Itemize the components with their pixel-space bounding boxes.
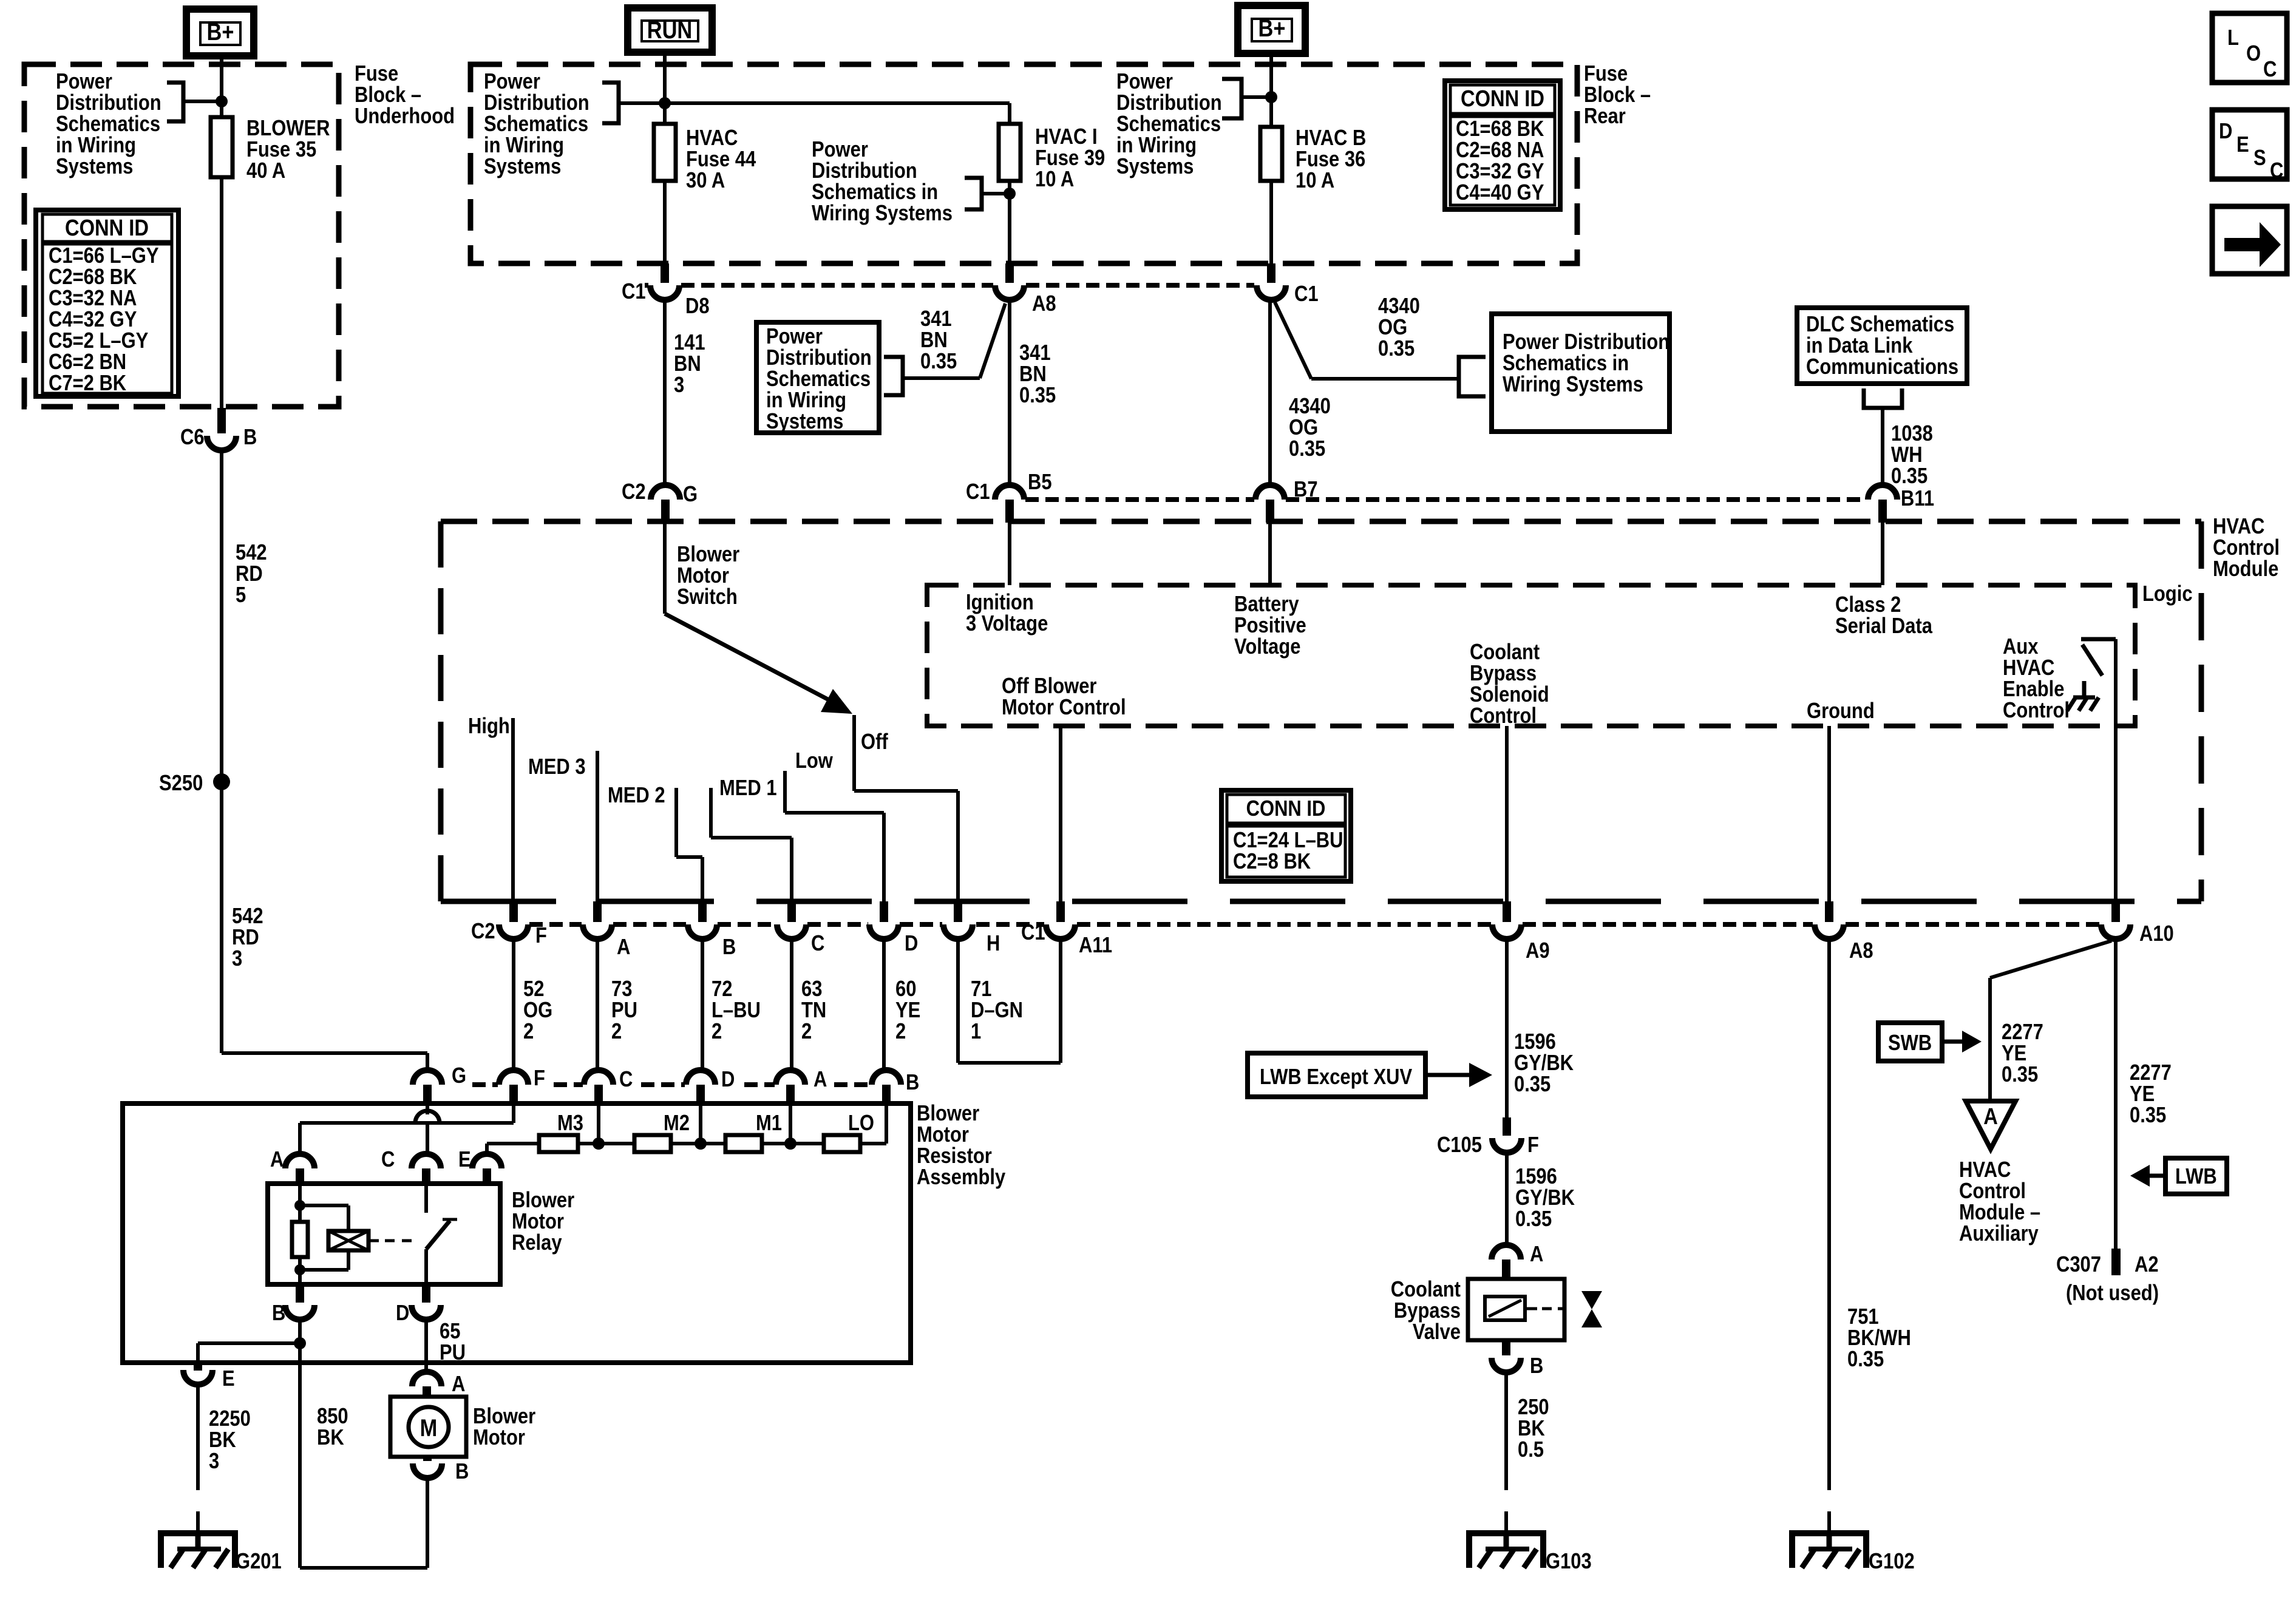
connector pin A8 (module bottom) xyxy=(1825,901,1833,922)
svg-text:C: C xyxy=(2270,159,2283,183)
svg-text:HVAC: HVAC xyxy=(2003,656,2054,680)
svg-text:Switch: Switch xyxy=(677,585,738,609)
ground G102 xyxy=(1792,1533,1866,1568)
box note Power Distribution Schematics in Wiring Systems (4340 OG) xyxy=(1492,314,1669,432)
connector pin B (module bottom) xyxy=(698,901,707,922)
connector C1 pin D8 xyxy=(661,263,669,283)
svg-text:10 A: 10 A xyxy=(1296,169,1334,193)
wire 2250 BK to G201 xyxy=(196,1385,200,1490)
svg-text:C5=2 L–GY: C5=2 L–GY xyxy=(49,329,148,353)
wire M3 to C node xyxy=(578,1142,634,1145)
node junction C / resistor network xyxy=(593,1137,605,1150)
svg-text:in Wiring: in Wiring xyxy=(484,134,564,158)
svg-text:Coolant: Coolant xyxy=(1391,1278,1461,1302)
svg-text:G103: G103 xyxy=(1546,1550,1592,1574)
svg-text:Positive: Positive xyxy=(1234,614,1306,638)
inline connector line (resistor assembly, dotted) xyxy=(472,1082,498,1087)
svg-text:Systems: Systems xyxy=(1116,155,1194,179)
wire bracket link to Power Distribution note (left) xyxy=(183,100,222,103)
svg-text:2277: 2277 xyxy=(2002,1020,2043,1045)
label Power Distribution Schematics in Wiring Systems (run feed) xyxy=(484,70,589,179)
connector pin A9 (module bottom) xyxy=(1503,901,1511,922)
svg-text:Coolant: Coolant xyxy=(1470,640,1540,665)
svg-text:63: 63 xyxy=(801,977,822,1002)
svg-text:YE: YE xyxy=(2130,1082,2155,1107)
node relay coil top xyxy=(294,1200,305,1211)
svg-text:C1=68 BK: C1=68 BK xyxy=(1456,117,1544,141)
wire fuse 44 to connector C1/D8 xyxy=(663,181,667,272)
svg-text:in Wiring: in Wiring xyxy=(56,134,136,158)
svg-text:HVAC: HVAC xyxy=(2213,515,2264,539)
svg-text:C1: C1 xyxy=(1294,282,1319,307)
relay switch blade xyxy=(426,1221,450,1249)
svg-text:542: 542 xyxy=(236,541,267,565)
symbol LOC box xyxy=(2212,13,2287,83)
svg-text:0.35: 0.35 xyxy=(1515,1207,1552,1232)
svg-text:C1: C1 xyxy=(966,480,990,504)
wire 141 BN 3 (D8 to G) xyxy=(663,300,667,486)
svg-text:0.35: 0.35 xyxy=(1378,337,1415,361)
label 60 YE 2 xyxy=(895,977,920,1044)
svg-text:0.35: 0.35 xyxy=(1891,464,1927,489)
bracket for Power Distribution note (fuse39) xyxy=(965,178,982,209)
relay coil symbol xyxy=(328,1231,369,1250)
label 751 BK/WH 0.35 xyxy=(1847,1305,1911,1372)
svg-text:S250: S250 xyxy=(159,771,203,796)
resistor M3 xyxy=(539,1135,578,1152)
svg-text:52: 52 xyxy=(523,977,544,1002)
label 4340 OG 0.35 (lower) xyxy=(1289,395,1331,461)
relay pin D (blower motor relay) xyxy=(422,1284,430,1303)
svg-text:C2=8 BK: C2=8 BK xyxy=(1233,850,1311,874)
svg-text:B: B xyxy=(455,1460,469,1484)
svg-text:GY/BK: GY/BK xyxy=(1515,1186,1575,1210)
connector C2 pin G (module) xyxy=(651,485,680,500)
svg-text:A: A xyxy=(617,935,630,960)
svg-text:B: B xyxy=(243,425,257,450)
wire B11 into module xyxy=(1881,523,1884,585)
connector C6 pin B xyxy=(217,408,226,433)
svg-text:B5: B5 xyxy=(1028,470,1052,495)
svg-text:Resistor: Resistor xyxy=(917,1144,992,1168)
svg-text:Motor: Motor xyxy=(917,1123,969,1147)
svg-text:40 A: 40 A xyxy=(246,159,285,183)
svg-text:Schematics: Schematics xyxy=(1116,112,1221,137)
wire A10 diagonal to SWB branch xyxy=(1990,941,2111,978)
wire 4340 OG 0.35 (C1 to B7) xyxy=(1268,300,1272,486)
svg-text:H: H xyxy=(987,932,1000,956)
wire 542 RD 5 (C6 to S250) xyxy=(220,450,223,782)
svg-text:2: 2 xyxy=(523,1020,534,1044)
svg-text:BK: BK xyxy=(209,1428,236,1453)
svg-text:Solenoid: Solenoid xyxy=(1470,683,1549,707)
box LWB Except XUV xyxy=(1248,1053,1425,1097)
wire B7 into module xyxy=(1268,523,1272,585)
wire to connector E xyxy=(198,1341,300,1345)
svg-text:Fuse 39: Fuse 39 xyxy=(1035,146,1105,171)
svg-text:Power: Power xyxy=(484,70,540,94)
wire 72 L-BU 2 xyxy=(701,939,704,1070)
svg-text:A8: A8 xyxy=(1849,939,1873,963)
svg-text:High: High xyxy=(468,714,510,739)
power symbol RUN (ignition) xyxy=(628,8,712,52)
svg-text:C3=32 GY: C3=32 GY xyxy=(1456,160,1544,184)
node junction 850BK/ground xyxy=(294,1337,306,1349)
svg-text:Wiring Systems: Wiring Systems xyxy=(1503,373,1643,397)
svg-text:Ground: Ground xyxy=(1807,699,1875,724)
svg-text:Schematics in: Schematics in xyxy=(812,180,938,205)
svg-text:B: B xyxy=(906,1071,919,1095)
svg-text:Blower: Blower xyxy=(677,543,739,567)
svg-text:HVAC: HVAC xyxy=(686,126,738,151)
node junction on B+ wire xyxy=(216,95,228,107)
connector pin G (resistor assembly) xyxy=(413,1070,442,1085)
label 63 TN 2 xyxy=(801,977,826,1044)
label Low xyxy=(795,749,834,773)
svg-text:SWB: SWB xyxy=(1888,1031,1932,1056)
svg-text:M2: M2 xyxy=(664,1111,690,1136)
svg-text:73: 73 xyxy=(611,977,632,1002)
wire resistor chain from relay pin E xyxy=(487,1142,539,1145)
label 341 BN 0.35 (right) xyxy=(1019,341,1056,408)
svg-text:4340: 4340 xyxy=(1378,294,1420,319)
svg-text:PU: PU xyxy=(611,998,637,1023)
svg-text:Fuse 35: Fuse 35 xyxy=(246,138,316,162)
connector pin B7 (module) xyxy=(1255,485,1285,500)
connector pin E (resistor assembly out) xyxy=(194,1360,202,1371)
wire aux enable to A10 xyxy=(2114,639,2118,901)
solenoid Coolant Bypass Valve xyxy=(1468,1279,1564,1340)
svg-text:C2: C2 xyxy=(471,920,495,944)
svg-text:A: A xyxy=(1530,1242,1543,1267)
wire A10 to C307 xyxy=(2114,939,2118,1249)
motor M1 blower motor xyxy=(390,1397,466,1457)
box SWB xyxy=(1878,1023,1942,1061)
svg-text:OG: OG xyxy=(1289,416,1318,440)
wire 850 BK (relay B to blower motor B) xyxy=(298,1343,302,1568)
connector pin A10 (module bottom) xyxy=(2111,901,2120,922)
resistor relay coil shunt xyxy=(292,1222,308,1257)
svg-text:BK/WH: BK/WH xyxy=(1847,1326,1911,1351)
connector pin B (resistor assembly) xyxy=(872,1070,901,1085)
svg-text:Motor: Motor xyxy=(512,1210,564,1234)
connector pin B (coolant bypass valve) xyxy=(1502,1340,1510,1355)
svg-text:S: S xyxy=(2254,146,2266,171)
table CONN ID (rear fuse block) xyxy=(1445,81,1560,209)
label 2277 YE 0.35 (LWB side) xyxy=(2130,1061,2172,1128)
svg-text:D: D xyxy=(905,932,918,956)
svg-text:B11: B11 xyxy=(1901,487,1934,511)
svg-text:341: 341 xyxy=(920,307,952,331)
label 250 BK 0.5 xyxy=(1518,1395,1549,1462)
svg-text:A: A xyxy=(270,1148,284,1172)
wire F to relay pin A xyxy=(512,1103,515,1123)
resistor M1 xyxy=(725,1135,762,1152)
svg-text:Valve: Valve xyxy=(1413,1320,1461,1344)
svg-text:Aux: Aux xyxy=(2003,635,2039,659)
wire A into resistor network xyxy=(789,1103,792,1144)
svg-text:D: D xyxy=(2219,120,2232,144)
svg-text:F: F xyxy=(1527,1133,1539,1158)
wire RUN to fuse 44 xyxy=(663,52,667,124)
svg-text:OG: OG xyxy=(1378,316,1407,340)
node relay coil bottom xyxy=(294,1264,305,1275)
svg-text:0.35: 0.35 xyxy=(920,350,957,374)
relay pin A (blower motor relay) xyxy=(285,1154,314,1168)
connector pin D (module bottom) xyxy=(880,901,888,922)
svg-text:Control: Control xyxy=(2213,536,2280,560)
svg-text:C2=68 BK: C2=68 BK xyxy=(49,265,137,290)
svg-text:Systems: Systems xyxy=(766,410,843,434)
svg-text:WH: WH xyxy=(1891,443,1923,467)
bracket for Power Distribution note (b+ right) xyxy=(1222,79,1241,118)
svg-text:C1: C1 xyxy=(622,280,646,304)
label Blower Motor Resistor Assembly xyxy=(917,1102,1006,1190)
svg-text:D: D xyxy=(396,1301,409,1326)
svg-text:Voltage: Voltage xyxy=(1234,635,1300,659)
arrow SWB xyxy=(1942,1040,1962,1044)
connector pin A (module bottom) xyxy=(593,901,602,922)
svg-text:MED 2: MED 2 xyxy=(608,784,665,808)
label 2250 BK 3 xyxy=(209,1407,251,1474)
label BLOWER Fuse 35 40 A xyxy=(246,117,330,183)
svg-text:Power Distribution: Power Distribution xyxy=(1503,330,1669,354)
svg-text:A8: A8 xyxy=(1032,292,1056,316)
svg-text:C2=68 NA: C2=68 NA xyxy=(1456,138,1544,163)
power symbol B+ (left, hot at all times) xyxy=(186,9,254,56)
svg-text:65: 65 xyxy=(440,1320,460,1344)
symbol next-page arrow box xyxy=(2212,206,2287,274)
svg-text:C4=40 GY: C4=40 GY xyxy=(1456,181,1544,205)
svg-text:0.35: 0.35 xyxy=(1514,1073,1550,1097)
wire 65 PU relay D to blower motor A xyxy=(424,1320,428,1372)
svg-text:Power: Power xyxy=(766,325,823,349)
relay actuator dashed link xyxy=(369,1239,379,1242)
svg-text:0.35: 0.35 xyxy=(1847,1347,1884,1372)
svg-text:C: C xyxy=(811,932,824,956)
svg-text:Schematics: Schematics xyxy=(56,112,160,137)
wire C105 to valve A xyxy=(1505,1153,1509,1245)
svg-text:in Wiring: in Wiring xyxy=(1116,134,1197,158)
svg-text:LWB Except XUV: LWB Except XUV xyxy=(1260,1065,1413,1090)
svg-text:BN: BN xyxy=(920,328,948,353)
svg-text:G201: G201 xyxy=(236,1550,282,1574)
connector C2 pin F (module bottom) xyxy=(509,901,518,922)
label Blower Motor xyxy=(473,1405,535,1450)
connector C1 pin A11 (module bottom) xyxy=(1056,901,1065,922)
fuse HVAC B Fuse 36 10A xyxy=(1260,127,1282,181)
svg-text:C6=2 BN: C6=2 BN xyxy=(49,350,126,375)
svg-text:Systems: Systems xyxy=(484,155,561,179)
svg-text:Relay: Relay xyxy=(512,1231,562,1255)
svg-text:Blower: Blower xyxy=(917,1102,979,1126)
svg-text:Enable: Enable xyxy=(2003,677,2064,702)
wire 751 BK/WH 0.35 xyxy=(1827,939,1831,1490)
svg-text:60: 60 xyxy=(895,977,916,1002)
bracket for Power Distribution note (run) xyxy=(602,83,619,123)
svg-text:2: 2 xyxy=(801,1020,812,1044)
label 542 RD 5 xyxy=(236,541,267,608)
svg-text:Power: Power xyxy=(1116,70,1173,94)
box Blower Motor Resistor Assembly xyxy=(123,1103,911,1363)
wire B5 into module xyxy=(1008,523,1011,585)
svg-text:Fuse: Fuse xyxy=(1584,62,1628,86)
svg-text:MED 3: MED 3 xyxy=(528,755,586,779)
node junction D / resistor network xyxy=(695,1137,707,1150)
svg-text:M: M xyxy=(420,1414,438,1442)
svg-text:L: L xyxy=(2227,26,2239,50)
label 542 RD 3 xyxy=(232,904,263,971)
box Fuse Block - Rear (dashed) xyxy=(470,64,1577,263)
wire bracket link to Power Distribution note (fuse39) xyxy=(982,192,1010,195)
label 71 D-GN 1 xyxy=(971,977,1023,1044)
inline connector line row B (dotted) xyxy=(1025,497,1254,502)
svg-text:0.35: 0.35 xyxy=(1019,384,1056,408)
label 850 BK xyxy=(317,1405,348,1450)
svg-text:4340: 4340 xyxy=(1289,395,1331,419)
label HVAC Fuse 44 30 A xyxy=(686,126,756,193)
svg-text:Off Blower: Off Blower xyxy=(1002,674,1096,699)
svg-text:C4=32 GY: C4=32 GY xyxy=(49,308,137,332)
wire bracket link to Power Distribution note (b+ right) xyxy=(1241,95,1271,99)
label Coolant Bypass Solenoid Control xyxy=(1470,640,1549,728)
wire relay pin C to switch contact xyxy=(424,1184,428,1213)
label 72 L-BU 2 xyxy=(712,977,761,1044)
splice S250 xyxy=(213,773,230,790)
node junction A / resistor network xyxy=(784,1137,796,1150)
wire 1038 WH 0.35 xyxy=(1881,408,1884,486)
connector pin C (resistor assembly) xyxy=(584,1070,613,1085)
connector pin B (blower motor) xyxy=(423,1457,432,1461)
svg-text:Module: Module xyxy=(2213,557,2278,581)
svg-text:Logic: Logic xyxy=(2142,582,2193,606)
svg-text:BN: BN xyxy=(674,352,701,376)
svg-text:C1=24 L–BU: C1=24 L–BU xyxy=(1233,829,1343,853)
connector C105 pin F xyxy=(1503,1117,1511,1136)
svg-text:Fuse 44: Fuse 44 xyxy=(686,147,756,172)
svg-text:Distribution: Distribution xyxy=(56,91,161,115)
label Off xyxy=(861,730,888,754)
svg-text:F: F xyxy=(535,924,547,948)
svg-text:850: 850 xyxy=(317,1405,348,1429)
wire 63 TN 2 xyxy=(790,939,793,1070)
svg-text:Blower: Blower xyxy=(512,1188,574,1213)
label Ignition 3 Voltage xyxy=(966,591,1048,636)
svg-text:0.35: 0.35 xyxy=(1289,437,1325,461)
svg-text:A: A xyxy=(1983,1103,1998,1130)
svg-text:RD: RD xyxy=(232,926,259,950)
svg-text:G102: G102 xyxy=(1869,1550,1915,1574)
label Blower Motor Switch xyxy=(677,543,739,609)
fuse BLOWER Fuse 35 40A xyxy=(211,117,233,177)
wire relay coil branch (pin A) xyxy=(298,1184,302,1222)
svg-text:(Not used): (Not used) xyxy=(2066,1281,2159,1306)
svg-text:A2: A2 xyxy=(2135,1253,2159,1277)
svg-text:3 Voltage: 3 Voltage xyxy=(966,612,1048,636)
label 1038 WH 0.35 xyxy=(1891,422,1933,489)
svg-text:Block –: Block – xyxy=(355,83,421,107)
svg-text:LO: LO xyxy=(848,1111,874,1136)
svg-text:B: B xyxy=(1530,1354,1543,1378)
svg-text:Motor: Motor xyxy=(473,1426,525,1450)
connector pin H (module bottom) xyxy=(954,901,962,922)
svg-text:Fuse 36: Fuse 36 xyxy=(1296,147,1365,172)
wire A9 to C105 xyxy=(1505,939,1509,1117)
label MED 1 xyxy=(719,776,777,801)
wire B+ to fuse 35 xyxy=(220,56,223,117)
svg-text:Fuse: Fuse xyxy=(355,62,398,86)
label Class 2 Serial Data xyxy=(1835,593,1932,639)
svg-text:30 A: 30 A xyxy=(686,169,725,193)
svg-text:Class 2: Class 2 xyxy=(1835,593,1901,617)
label HVAC B Fuse 36 10 A xyxy=(1296,126,1366,193)
svg-text:PU: PU xyxy=(440,1341,466,1365)
svg-text:BK: BK xyxy=(317,1426,344,1450)
label 65 PU xyxy=(440,1320,466,1365)
svg-text:C1=66 L–GY: C1=66 L–GY xyxy=(49,244,158,268)
wire blower switch wiper (diagonal) xyxy=(665,614,844,708)
svg-text:Communications: Communications xyxy=(1806,355,1958,379)
svg-text:Ignition: Ignition xyxy=(966,591,1034,615)
relay pin E (blower motor relay) xyxy=(472,1154,501,1168)
svg-text:M1: M1 xyxy=(756,1111,782,1136)
fuse HVAC I Fuse 39 10A xyxy=(999,124,1021,181)
wire 71 D-GN 1 (H to A11 loop) xyxy=(956,939,960,1063)
svg-text:Schematics: Schematics xyxy=(484,112,588,137)
svg-text:BLOWER: BLOWER xyxy=(246,117,330,141)
symbol off-page triangle A xyxy=(1966,1101,2016,1149)
svg-text:Off: Off xyxy=(861,730,888,754)
label 2277 YE 0.35 (SWB side) xyxy=(2002,1020,2043,1087)
wire fuse 35 to connector C6 xyxy=(220,177,223,425)
wire MED 2 position xyxy=(674,788,678,857)
svg-text:D: D xyxy=(721,1068,735,1092)
label 4340 OG 0.35 (upper) xyxy=(1378,294,1420,361)
wire B into resistor network xyxy=(885,1103,888,1144)
svg-text:2277: 2277 xyxy=(2130,1061,2172,1085)
node junction on RUN wire xyxy=(659,97,671,109)
label HVAC Control Module xyxy=(2213,515,2280,581)
wire D into resistor network xyxy=(699,1103,702,1144)
fuse HVAC Fuse 44 30A xyxy=(654,124,676,181)
connector C307 pin A2 (not used) xyxy=(2111,1249,2121,1275)
svg-text:Power: Power xyxy=(56,70,112,94)
svg-text:Rear: Rear xyxy=(1584,104,1626,129)
svg-text:C105: C105 xyxy=(1437,1133,1482,1158)
svg-text:A10: A10 xyxy=(2139,922,2174,946)
ground symbol (aux hvac logic) xyxy=(2082,681,2087,697)
table CONN ID (HVAC control module) xyxy=(1221,790,1351,881)
label Fuse Block - Underhood xyxy=(355,62,455,129)
symbol DESC box xyxy=(2212,110,2287,179)
svg-text:Systems: Systems xyxy=(56,155,133,179)
svg-text:0.35: 0.35 xyxy=(2002,1063,2038,1087)
label Power Distribution Schematics in Wiring Systems (underhood) xyxy=(56,70,161,179)
svg-text:HVAC: HVAC xyxy=(1959,1158,2011,1182)
svg-text:Serial Data: Serial Data xyxy=(1835,614,1932,639)
svg-text:Control: Control xyxy=(1470,704,1537,728)
wire 52 OG 2 xyxy=(512,939,515,1070)
svg-text:Bypass: Bypass xyxy=(1470,662,1537,686)
label MED 3 xyxy=(528,755,586,779)
label Aux HVAC Enable Control xyxy=(2003,635,2070,723)
label 341 BN 0.35 (left) xyxy=(920,307,957,374)
box note DLC Schematics in Data Link Communications xyxy=(1797,308,1967,384)
wire 341 BN branch to note xyxy=(980,303,1005,378)
svg-text:C7=2 BK: C7=2 BK xyxy=(49,371,126,396)
connector C1 pin B5 (module) xyxy=(995,485,1024,500)
svg-text:Schematics: Schematics xyxy=(766,367,871,392)
